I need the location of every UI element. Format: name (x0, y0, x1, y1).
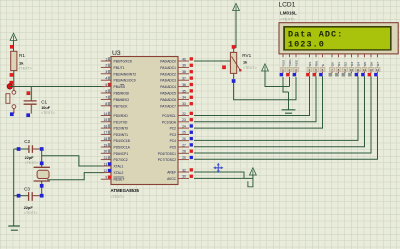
svg-text:15: 15 (104, 118, 108, 122)
wire VEE down (289, 77, 297, 100)
svg-text:22: 22 (182, 112, 186, 116)
mcu pin 5 PB4/SS (101, 86, 111, 88)
mcu pin 23 PC1/SDA (178, 121, 189, 123)
pin square RV1 bottom (232, 79, 236, 83)
capacitor C2 (29, 145, 33, 153)
svg-text:PD4/OC1B: PD4/OC1B (114, 139, 131, 143)
svg-text:11: 11 (356, 68, 359, 72)
svg-text:PC6/TOSC1: PC6/TOSC1 (158, 152, 176, 156)
svg-text:21: 21 (104, 156, 108, 160)
svg-text:1k: 1k (19, 61, 24, 66)
wire RV1 bottom to gnd (234, 83, 289, 100)
svg-text:38: 38 (182, 70, 186, 74)
wire (233, 73, 235, 79)
wire RV1 wiper to PA0 (194, 60, 230, 62)
svg-text:D7: D7 (376, 62, 380, 66)
svg-text:13: 13 (369, 68, 373, 72)
lcd pin 13 D6 (370, 54, 372, 57)
mcu pin 8 PB7/SCK (101, 105, 111, 107)
svg-text:PB0/T0/XCK: PB0/T0/XCK (114, 60, 133, 64)
lcd pin 5 RW (315, 54, 317, 57)
svg-text:PD3/INT1: PD3/INT1 (114, 133, 129, 137)
mcu pin 22 PC0/SCL (178, 115, 189, 117)
wire D5 to PC5 (194, 76, 365, 146)
svg-text:12: 12 (363, 68, 367, 72)
svg-text:PB6/MISO: PB6/MISO (114, 98, 130, 102)
svg-text:37: 37 (182, 77, 186, 81)
svg-text:RV1: RV1 (242, 53, 251, 58)
mcu pin 19 PD5/OC1A (101, 146, 111, 148)
wire (41, 149, 43, 167)
svg-text:39: 39 (182, 64, 186, 68)
wire to XTAL2 (47, 173, 103, 180)
wire button bottom pin (13, 109, 15, 114)
button contact top (12, 91, 16, 95)
svg-text:2: 2 (105, 64, 107, 68)
svg-text:35: 35 (182, 89, 186, 93)
mcu pin 37 PA3/ADC3 (178, 79, 189, 81)
svg-text:10uF: 10uF (41, 106, 51, 110)
svg-text:PC5: PC5 (170, 146, 177, 150)
svg-text:E: E (321, 64, 325, 66)
mcu pin 26 PC4 (178, 140, 189, 142)
svg-text:PC2: PC2 (170, 127, 177, 131)
lcd pin 3 VEE (295, 54, 297, 57)
svg-text:40: 40 (182, 57, 186, 61)
mcu pin 40 PA0/ADC0 (178, 60, 189, 62)
svg-text:26: 26 (182, 137, 186, 141)
pin square X1 top (40, 162, 44, 166)
svg-text:D4: D4 (356, 62, 360, 66)
mcu pin 18 PD4/OC1B (101, 140, 111, 142)
wire C2 left (14, 148, 29, 150)
pin square R1 top (10, 45, 14, 49)
svg-text:PC4: PC4 (170, 139, 177, 143)
svg-text:R1: R1 (19, 53, 25, 58)
capacitor C1 (24, 101, 37, 104)
svg-text:27: 27 (182, 143, 186, 147)
svg-text:PA7/ADC7: PA7/ADC7 (160, 104, 176, 108)
svg-text:14: 14 (104, 112, 108, 116)
wire gnd drop (288, 92, 290, 110)
lcd pin 1 VSS (282, 54, 284, 57)
svg-text:<TEXT>: <TEXT> (18, 66, 32, 70)
pin square C1 top (27, 91, 31, 95)
svg-text:<TEXT>: <TEXT> (25, 161, 39, 165)
svg-text:14: 14 (376, 68, 380, 72)
mcu pin 33 PA7/ADC7 (178, 105, 189, 107)
mcu U3 body (111, 57, 178, 185)
potentiometer RV1 (230, 52, 236, 73)
mcu pin 9 RESET (101, 178, 111, 180)
pin square C3 right (40, 194, 44, 198)
svg-text:<TEXT>: <TEXT> (111, 195, 125, 199)
mcu pin 32 AREF (178, 171, 189, 173)
mcu pin 36 PA4/ADC4 (178, 86, 189, 88)
mcu pin 39 PA1/ADC1 (178, 66, 189, 68)
mcu pin 7 PB6/MISO (101, 98, 111, 100)
pin square C3 left (17, 194, 21, 198)
pin square button top (10, 81, 14, 85)
wire (233, 48, 235, 52)
wire (13, 71, 15, 87)
origin marker (214, 164, 222, 172)
mcu pin 14 PD0/RXD (101, 115, 111, 117)
pin square RV1 top (232, 45, 236, 49)
wire C1 bottom (30, 104, 32, 113)
svg-text:PA6/ADC6: PA6/ADC6 (160, 98, 176, 102)
svg-text:VEE: VEE (294, 60, 298, 66)
wire AVCC (194, 177, 253, 179)
wire C1 top (30, 87, 32, 101)
wire C3 right (32, 195, 42, 197)
junction node A (7, 84, 12, 89)
lcd pin 10 D3 (351, 54, 353, 57)
mcu pin 13 XTAL1 (101, 165, 111, 167)
svg-text:PD1/TXD: PD1/TXD (114, 120, 129, 124)
svg-text:36: 36 (182, 83, 186, 87)
pin square X1 bottom (40, 184, 44, 188)
svg-text:PA2/ADC2: PA2/ADC2 (160, 72, 176, 76)
power VCC top (233, 3, 240, 10)
svg-text:23: 23 (182, 118, 186, 122)
svg-text:7: 7 (105, 96, 107, 100)
wire C2 right (32, 148, 41, 150)
svg-text:D0: D0 (330, 62, 334, 66)
wire D7 to PC7 (194, 76, 378, 159)
pin square button bottom (10, 112, 14, 116)
lcd pin 7 D0 (331, 54, 333, 57)
svg-text:<TEXT>: <TEXT> (41, 111, 55, 115)
ground LCD (282, 110, 296, 113)
svg-text:4: 4 (105, 77, 107, 81)
crystal X1 (34, 167, 50, 181)
mcu pin 35 PA5/ADC5 (178, 92, 189, 94)
svg-text:6: 6 (105, 89, 107, 93)
button actuator (6, 94, 10, 104)
svg-text:30: 30 (182, 175, 186, 179)
svg-text:33: 33 (182, 102, 186, 106)
svg-text:LCD1: LCD1 (279, 2, 296, 9)
power VCC left (10, 33, 17, 40)
lcd pin 2 VDD (289, 54, 291, 57)
svg-text:PD2/INT0: PD2/INT0 (114, 127, 129, 131)
svg-text:20: 20 (104, 150, 108, 154)
mcu pin 15 PD1/TXD (101, 121, 111, 123)
wire RW to PC1 (194, 76, 316, 122)
svg-text:24: 24 (182, 124, 186, 128)
pin square C2 left (17, 147, 21, 151)
lcd pin 12 D5 (364, 54, 366, 57)
svg-text:D5: D5 (363, 62, 367, 66)
svg-text:RESET: RESET (114, 178, 125, 182)
svg-text:PB7/SCK: PB7/SCK (114, 104, 129, 108)
svg-text:RS: RS (308, 62, 312, 66)
wire VSS down (283, 77, 289, 92)
svg-text:32: 32 (182, 168, 186, 172)
svg-text:<TEXT>: <TEXT> (280, 16, 296, 21)
svg-text:AREF: AREF (167, 171, 176, 175)
svg-text:D6: D6 (369, 62, 373, 66)
svg-text:22pF: 22pF (24, 206, 34, 210)
mcu pin 1 PB0/T0/XCK (101, 60, 111, 62)
svg-text:PD6/ICP1: PD6/ICP1 (114, 152, 129, 156)
button contact bottom (12, 105, 16, 109)
mcu pin 29 PC7/TOSC2 (178, 159, 189, 161)
svg-text:PA1/ADC1: PA1/ADC1 (160, 66, 176, 70)
svg-text:8: 8 (105, 102, 107, 106)
lcd pin 14 D7 (377, 54, 379, 57)
svg-text:25: 25 (182, 131, 186, 135)
svg-text:AVCC: AVCC (167, 177, 177, 181)
svg-text:C2: C2 (24, 139, 30, 144)
pin square RV1 wiper (222, 66, 226, 70)
svg-text:PA4/ADC4: PA4/ADC4 (160, 85, 176, 89)
svg-text:22pF: 22pF (25, 156, 35, 160)
lcd pin 4 RS (309, 54, 311, 57)
mcu pin 6 PB5/MOSI (101, 92, 111, 94)
ground left (8, 226, 19, 230)
lcd pin 6 E (322, 54, 324, 57)
svg-text:PA5/ADC5: PA5/ADC5 (160, 92, 176, 96)
svg-text:VSS: VSS (281, 60, 285, 66)
wire (13, 40, 15, 51)
svg-text:LM016L: LM016L (280, 10, 297, 15)
lcd pin 11 D4 (357, 54, 359, 57)
wire RS to PC0 (194, 76, 310, 115)
svg-text:Data ADC:: Data ADC: (288, 29, 343, 39)
svg-text:3: 3 (105, 70, 107, 74)
resistor R1 (11, 51, 17, 70)
pin square R1 bottom (10, 73, 14, 77)
mcu pin 25 PC3 (178, 133, 189, 135)
svg-text:PC3: PC3 (170, 133, 177, 137)
mcu pin 21 PD7/OC2 (101, 159, 111, 161)
svg-text:C3: C3 (24, 186, 30, 191)
lcd LCD1 frame (279, 23, 398, 54)
svg-text:19: 19 (104, 143, 108, 147)
svg-text:D1: D1 (337, 62, 341, 66)
wire (248, 175, 253, 187)
svg-text:PB4/SS: PB4/SS (114, 85, 126, 89)
svg-text:PA0/ADC0: PA0/ADC0 (160, 60, 176, 64)
svg-text:PC7/TOSC2: PC7/TOSC2 (158, 158, 176, 162)
svg-text:PD5/OC1A: PD5/OC1A (114, 146, 131, 150)
mcu pin 3 PB2/AIN0/INT2 (101, 73, 111, 75)
lcd pin 9 D2 (344, 54, 346, 57)
wire node A to MCU pin5 (10, 86, 104, 88)
wire VDD down (289, 77, 291, 87)
wire AREF (194, 172, 244, 178)
wire to XTAL1 (42, 156, 104, 166)
svg-text:9: 9 (105, 176, 107, 180)
svg-text:34: 34 (182, 96, 186, 100)
wire VCC to RV1 (235, 11, 237, 48)
mcu pin 34 PA6/ADC6 (178, 98, 189, 100)
svg-text:PB5/MOSI: PB5/MOSI (114, 92, 130, 96)
wire D4 to PC4 (194, 76, 358, 140)
svg-text:RW: RW (314, 61, 318, 66)
svg-text:PC1/SDA: PC1/SDA (162, 120, 177, 124)
wire button top pin (13, 87, 15, 91)
svg-text:PD7/OC2: PD7/OC2 (114, 158, 128, 162)
mcu pin 2 PB1/T1 (101, 66, 111, 68)
svg-text:<TEXT>: <TEXT> (243, 66, 257, 70)
mcu pin 12 XTAL2 (101, 172, 111, 174)
mcu pin 4 PB3/AIN1/OC0 (101, 79, 111, 81)
mcu pin 16 PD2/INT0 (101, 127, 111, 129)
power VCC VDD (262, 64, 269, 71)
svg-text:PC0/SCL: PC0/SCL (162, 114, 176, 118)
wire VCC to VDD (265, 71, 290, 87)
svg-text:PB2/AIN0/INT2: PB2/AIN0/INT2 (114, 72, 137, 76)
svg-text:PA3/ADC3: PA3/ADC3 (160, 79, 176, 83)
mcu pin 20 PD6/ICP1 (101, 152, 111, 154)
svg-text:ATMEGA8535: ATMEGA8535 (111, 188, 140, 193)
svg-text:1: 1 (105, 57, 107, 61)
svg-text:10: 10 (350, 68, 354, 72)
pin square C2 right (40, 147, 44, 151)
wire (41, 181, 43, 196)
mcu pin 38 PA2/ADC2 (178, 73, 189, 75)
wire D6 to PC6 (194, 76, 371, 153)
svg-text:PB1/T1: PB1/T1 (114, 66, 125, 70)
svg-text:C1: C1 (41, 99, 47, 104)
capacitor C3 (29, 192, 33, 201)
svg-text:12: 12 (104, 169, 108, 173)
mcu pin 17 PD3/INT1 (101, 133, 111, 135)
svg-text:13: 13 (104, 162, 108, 166)
wire C3 left (14, 195, 29, 197)
lcd screen (283, 26, 391, 51)
svg-text:28: 28 (182, 150, 186, 154)
mcu pin 28 PC6/TOSC1 (178, 152, 189, 154)
wire E to PC2 (194, 76, 323, 128)
power VCC AVCC (250, 168, 257, 175)
lcd pin 8 D1 (338, 54, 340, 57)
svg-text:D2: D2 (343, 62, 347, 66)
mcu pin 30 AVCC (178, 177, 189, 179)
svg-text:29: 29 (182, 156, 186, 160)
svg-text:PD0/RXD: PD0/RXD (114, 114, 129, 118)
svg-text:<TEXT>: <TEXT> (24, 211, 38, 215)
pin square C1 bottom (26, 113, 30, 117)
svg-text:VDD: VDD (288, 59, 292, 66)
svg-text:18: 18 (104, 137, 108, 141)
svg-text:D3: D3 (350, 62, 354, 66)
wire ground rail (13, 149, 15, 226)
mcu pin 27 PC5 (178, 146, 189, 148)
svg-text:XTAL1: XTAL1 (114, 165, 124, 169)
svg-text:PB3/AIN1/OC0: PB3/AIN1/OC0 (114, 79, 136, 83)
svg-text:16: 16 (104, 124, 108, 128)
svg-text:XTAL2: XTAL2 (114, 171, 124, 175)
svg-text:5: 5 (105, 83, 107, 87)
mcu pin 24 PC2 (178, 127, 189, 129)
svg-text:17: 17 (104, 131, 108, 135)
svg-text:1023.0: 1023.0 (288, 40, 325, 50)
